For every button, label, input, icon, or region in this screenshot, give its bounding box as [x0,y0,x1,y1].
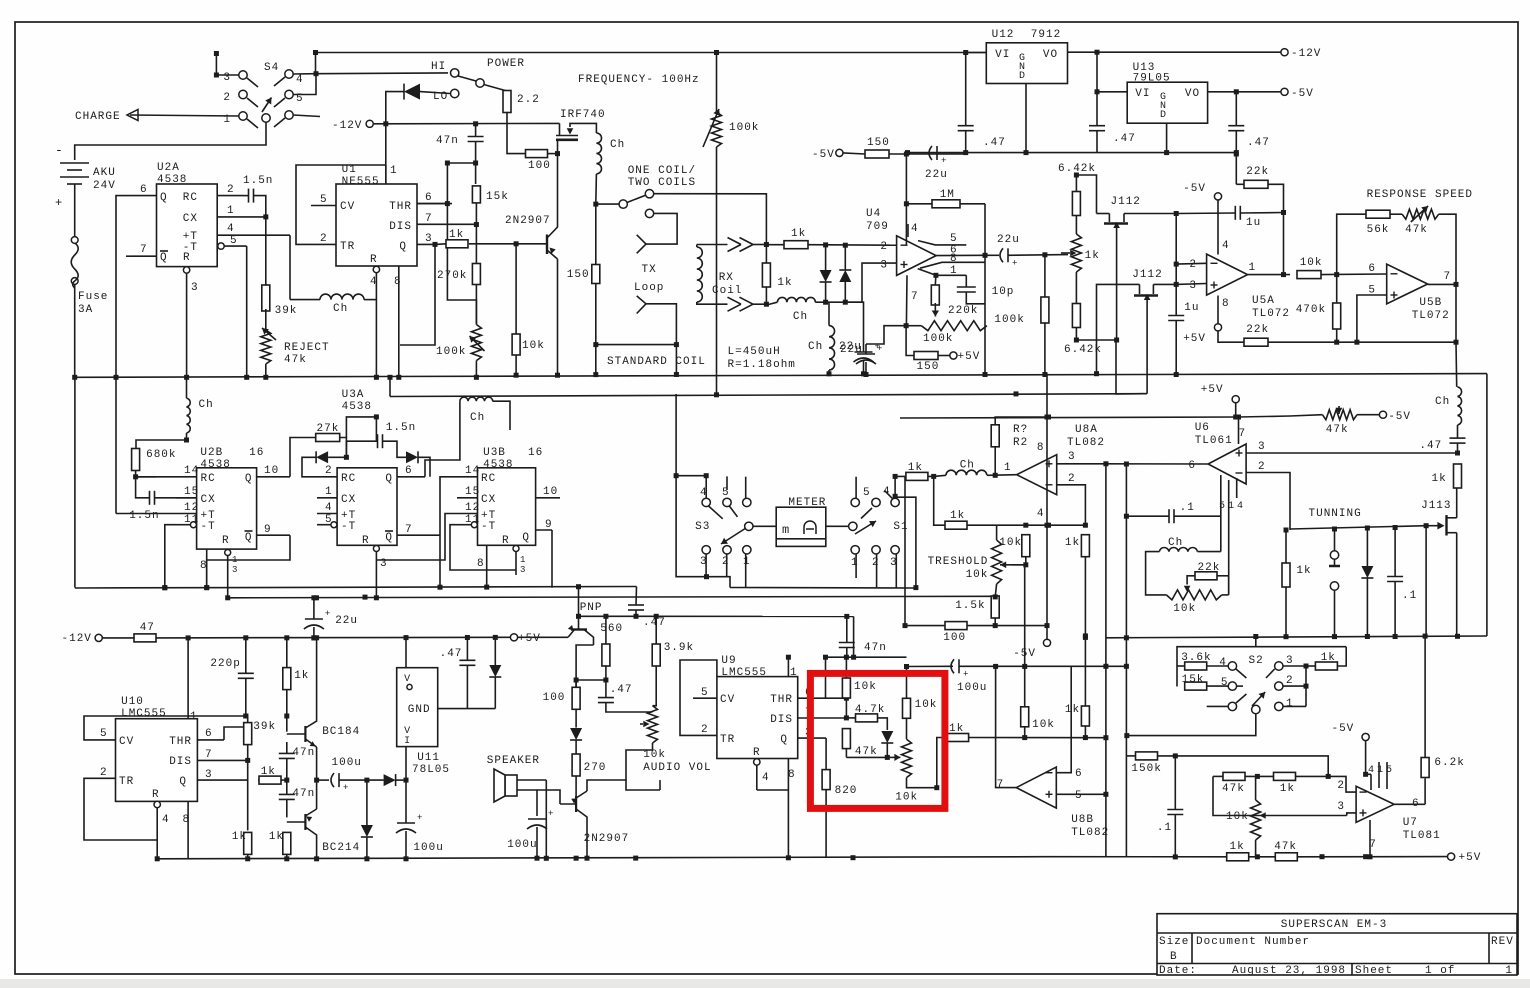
resistor 10k (u5) [1297,271,1321,279]
svg-text:5: 5 [1221,677,1229,689]
svg-text:4: 4 [1219,657,1227,669]
svg-text:3: 3 [232,565,237,575]
resistor 1k (mid right) [1282,563,1290,587]
pot TRESHOLD 10k [992,540,1002,584]
svg-text:6: 6 [1368,263,1376,275]
svg-text:PNP: PNP [580,602,603,614]
svg-text:5: 5 [100,728,108,740]
wire j112l bracket [1097,284,1140,373]
svg-text:CX: CX [183,213,198,225]
svg-text:7: 7 [1444,271,1452,283]
resistor 3.9k [652,644,660,666]
s2 rotor [1252,705,1260,713]
svg-text:5: 5 [863,487,871,499]
svg-text:1: 1 [227,205,235,217]
wire reject to bus [265,364,267,377]
svg-text:3: 3 [191,282,199,294]
svg-text:10p: 10p [992,286,1015,298]
svg-text:-5V: -5V [1291,88,1314,100]
wire u5a out [1248,274,1290,276]
svg-text:100u: 100u [332,757,362,769]
resistor 150 (tx loop) [592,265,600,284]
svg-text:1.5k: 1.5k [955,600,985,612]
wire bus 597 [228,596,996,598]
wire u2b q out [290,438,317,477]
capacitor 22u (mid) [305,618,323,620]
resistor 1k (right) [1454,464,1462,488]
svg-text:1k: 1k [294,670,309,682]
svg-text:5: 5 [325,514,333,526]
resistor 1k (u7 b) [1227,853,1249,861]
wire power to 2.2 [484,85,507,92]
resistor 6.42k (bot) [1072,304,1080,328]
svg-text:.47: .47 [983,137,1006,149]
resistor 3.6k (s2) [1185,662,1207,670]
resistor 10k (rb1) [842,678,850,698]
wire j112l source [1153,283,1176,285]
svg-text:3.6k: 3.6k [1181,652,1211,664]
svg-text:2.2: 2.2 [517,94,540,106]
svg-text:15k: 15k [1182,674,1205,686]
svg-text:4538: 4538 [157,174,187,186]
U10 pin stubs [92,739,116,741]
wire u11 bottom [405,747,407,781]
svg-text:CHARGE: CHARGE [75,111,121,123]
svg-text:-5V: -5V [812,149,835,161]
wire choke to switch [596,174,619,204]
capacitor 10p [957,286,976,288]
svg-text:m: m [782,523,789,537]
svg-text:S4: S4 [264,62,279,74]
wire s1 4 to 1k [893,494,898,499]
wire u8b pin6 [1056,666,1071,772]
svg-text:12: 12 [184,502,199,514]
svg-text:Ch: Ch [793,311,808,323]
resistor 1k (u7 a) [1274,772,1296,780]
svg-text:U3B: U3B [483,447,506,459]
svg-text:47n: 47n [292,788,315,800]
svg-text:1k: 1k [261,766,276,778]
svg-text:+: + [417,813,422,823]
svg-text:TR: TR [340,241,355,253]
svg-text:10k: 10k [915,699,938,711]
resistor 270k [472,264,480,285]
svg-text:CV: CV [340,201,355,213]
svg-text:D: D [1160,110,1166,121]
svg-text:Q: Q [179,776,187,788]
wire u8a top rail [900,417,1239,418]
svg-text:AUDIO VOL: AUDIO VOL [643,762,711,774]
wire u2b pins left [136,476,176,478]
resistor 1k (s1 out) [906,472,928,480]
resistor 6.42k (top) [1072,192,1080,216]
svg-text:150k: 150k [1131,763,1161,775]
meter mA [776,507,826,546]
svg-text:47k: 47k [855,746,878,758]
capacitor 1.5n (u2b) [149,491,151,505]
svg-text:3A: 3A [78,304,93,316]
wire u9 top rail 657 [853,616,855,657]
resistor 1k (u10 base r) [283,832,291,854]
svg-text:4538: 4538 [200,459,230,471]
svg-text:2: 2 [1286,675,1294,687]
wire j113 gate column [1425,526,1427,636]
wire u3b pin lines [440,477,457,588]
S3 rotor arrow [721,528,746,544]
wire fuse to bus [74,284,76,377]
inductor Ch (rx) [777,297,815,302]
svg-text:D: D [1019,71,1025,82]
wire j112u source [1124,213,1176,215]
svg-text:1k: 1k [1432,473,1447,485]
svg-text:Ch: Ch [610,139,625,151]
svg-text:Q: Q [522,532,530,544]
svg-text:TL061: TL061 [1195,435,1233,447]
wire pnp collector [576,645,593,687]
svg-text:100: 100 [528,160,551,172]
wire u7 out [1394,803,1425,805]
svg-text:10k: 10k [1300,257,1323,269]
resistor 1k (bc184 top) [283,668,291,690]
node +5V (bottom right) [1448,853,1455,860]
svg-text:1: 1 [743,556,751,568]
resistor 4.7k [856,714,878,722]
wire u13 out [1208,91,1281,93]
svg-text:FREQUENCY- 100Hz: FREQUENCY- 100Hz [578,74,700,86]
node -12V (right) [1281,49,1288,56]
wire Q down [400,244,435,345]
svg-text:RC: RC [183,192,198,204]
resistor 470k [1333,303,1341,329]
svg-text:6.2k: 6.2k [1434,757,1464,769]
svg-text:680k: 680k [146,449,176,461]
svg-text:CV: CV [119,736,134,748]
wire main bus right wrap [1486,374,1488,636]
svg-text:+5V: +5V [1183,333,1206,345]
capacitor .47 (audio top) [628,604,644,606]
svg-text:+: + [963,669,968,679]
U4 comp pin 1 [918,269,936,276]
U9 pin stubs [693,697,717,699]
svg-text:2: 2 [1068,473,1076,485]
svg-text:1: 1 [790,667,798,679]
svg-text:4: 4 [1222,240,1230,252]
svg-text:47n: 47n [292,747,315,759]
pot 47k (response) [1402,209,1439,219]
svg-text:3: 3 [880,260,888,272]
wire u6 inputs [1246,452,1457,454]
svg-text:.1: .1 [1402,590,1417,602]
svg-text:2: 2 [100,767,108,779]
resistor 22k (u6 fb) [1195,572,1217,580]
wire u9 pin1 top [787,657,789,676]
resistor 1.5k [991,596,999,618]
capacitor 47n (u9) [839,642,855,644]
wire top bus left [316,52,987,54]
svg-text:DIS: DIS [169,756,192,768]
svg-text:15: 15 [184,486,199,498]
capacitor .47 (audio a) [598,697,614,699]
resistor 6.2k [1421,758,1429,778]
svg-text:8: 8 [394,276,402,288]
svg-text:Ch: Ch [1435,396,1450,408]
svg-text:4: 4 [296,74,304,86]
svg-text:22k: 22k [1246,166,1269,178]
svg-text:1: 1 [190,711,198,723]
wire s1 bracket right [895,497,916,587]
svg-text:47k: 47k [1405,224,1428,236]
diode (tunning) [1361,566,1373,578]
svg-text:8: 8 [183,814,191,826]
wire j113 column [1116,340,1147,394]
svg-text:R: R [222,535,230,547]
resistor 100 [526,150,548,158]
resistor 270 [572,754,580,776]
capacitor .47 (u12) [958,125,974,127]
op-amp U7 TL081 [1356,786,1394,822]
svg-text:12: 12 [465,502,480,514]
resistor 100 (thresh) [945,622,967,630]
svg-text:U3A: U3A [342,389,365,401]
svg-text:BC214: BC214 [322,842,360,854]
resistor 15k (s2) [1185,682,1207,690]
IC U9 LMC555 [717,677,798,759]
svg-text:VI: VI [995,49,1010,61]
wire u3a top [346,417,376,441]
svg-text:15: 15 [465,486,480,498]
svg-text:4: 4 [911,223,919,235]
resistor 1k (U1 out) [446,240,468,248]
wire 100 to mosfet [548,153,558,155]
svg-text:47k: 47k [1222,783,1245,795]
svg-text:Ch: Ch [1168,537,1183,549]
svg-text:16: 16 [528,447,543,459]
svg-text:R: R [183,252,191,264]
svg-text:100u: 100u [507,839,537,851]
wire meter left [753,525,776,527]
svg-text:47k: 47k [1274,841,1297,853]
resistor 15k [472,186,480,203]
svg-text:.47: .47 [1113,133,1136,145]
wire second bus mid [390,394,1147,397]
svg-text:47n: 47n [864,642,887,654]
svg-text:SUPERSCAN EM-3: SUPERSCAN EM-3 [1281,919,1387,931]
wire u7 +in [1347,813,1356,816]
IC U13 79L05 [1127,82,1207,123]
svg-text:6: 6 [425,192,433,204]
node +5V (u5a) [1214,324,1221,331]
wire -12V [374,122,560,124]
resistor 1k (u10 base l) [244,832,252,854]
node -5V (u7) [1362,733,1369,740]
svg-text:10k: 10k [854,681,877,693]
svg-text:POWER: POWER [487,58,525,70]
svg-text:8: 8 [1037,442,1045,454]
resistor 47 [134,634,156,642]
capacitor 1u (u5a gnd) [1168,315,1184,317]
svg-text:TX: TX [642,264,657,276]
capacitor .47 (u11) [459,659,475,661]
wire u9 cv [680,660,717,735]
pot 10k (rb) [902,739,912,777]
inductor Ch (u3b) [460,397,493,401]
wire j113 down [1456,533,1458,636]
svg-text:22u: 22u [335,615,358,627]
svg-text:6: 6 [1075,768,1083,780]
svg-text:270: 270 [584,762,607,774]
svg-text:THR: THR [389,201,412,213]
svg-text:TL072: TL072 [1252,308,1290,320]
resistor 47k (u7 a) [1223,772,1245,780]
svg-text:78L05: 78L05 [412,764,450,776]
svg-text:4: 4 [1237,501,1243,512]
svg-text:August 23, 1998: August 23, 1998 [1232,965,1346,977]
wire u7 fb [1213,776,1347,815]
svg-text:1k: 1k [950,510,965,522]
svg-text:4: 4 [162,814,170,826]
svg-text:150: 150 [867,137,890,149]
resistor 1k (rb out) [947,734,969,742]
svg-text:LMC555: LMC555 [121,708,167,720]
wire meter right [826,525,849,527]
svg-text:6: 6 [140,184,148,196]
svg-text:+5V: +5V [958,351,981,363]
svg-text:3: 3 [1258,441,1266,453]
capacitor .1 (tunning) [1387,576,1403,578]
svg-text:U5A: U5A [1252,295,1275,307]
svg-text:.1: .1 [1157,822,1172,834]
svg-text:10k: 10k [1032,719,1055,731]
svg-text:METER: METER [788,497,826,509]
svg-text:RX: RX [719,272,734,284]
wire 2n2907 emitter down [557,259,559,375]
svg-text:Q: Q [385,532,393,544]
wire S4 pin4 [294,73,317,75]
inductor Ch (tx choke) [596,133,601,174]
inductor Ch (NE555) [320,294,364,300]
pot 10k (u6 fb) [1166,590,1221,600]
svg-text:R2: R2 [1013,437,1028,449]
svg-text:Q: Q [780,734,788,746]
wire u6 +in right [1455,451,1460,456]
resistor 820 [822,770,830,790]
wire amp emitter right [587,780,660,791]
wire pnp base drop [578,587,580,630]
pot REJECT 47k [265,309,267,330]
svg-text:BC184: BC184 [322,726,360,738]
wire s3 top feed [716,374,718,395]
svg-text:5: 5 [1075,790,1083,802]
wire U1 pin1 top [385,165,387,184]
svg-text:THR: THR [770,694,793,706]
svg-text:100k: 100k [994,314,1024,326]
wire tunning rail [1290,526,1426,529]
pot 10k AUDIO VOL [648,706,658,743]
svg-text:709: 709 [866,221,889,233]
u7 pins 415 [1366,741,1371,775]
svg-text:7: 7 [1239,428,1247,440]
svg-text:Coil: Coil [712,285,742,297]
svg-text:R=1.18ohm: R=1.18ohm [728,359,796,371]
svg-text:270k: 270k [437,270,467,282]
TX loop bracket [595,204,597,265]
svg-text:1: 1 [325,486,333,498]
capacitor .47 (right) [1450,437,1466,439]
svg-text:R: R [502,535,510,547]
svg-text:47: 47 [140,622,155,634]
wire rb mid [846,756,887,758]
wire U2A pin7 left [126,255,131,257]
wire u2b q9 [207,535,290,587]
wire diode left to -12V net [386,92,404,124]
svg-text:S2: S2 [1249,655,1264,667]
svg-text:TRESHOLD: TRESHOLD [928,556,989,568]
diode u3a left [316,451,328,463]
svg-text:4: 4 [762,772,770,784]
svg-text:-: - [55,143,64,158]
svg-text:SPEAKER: SPEAKER [487,755,540,767]
wire u5b +in [1357,295,1387,342]
svg-text:5: 5 [1219,501,1225,512]
svg-text:5: 5 [701,687,709,699]
wire u8a out [1083,523,1088,528]
svg-text:+5V: +5V [1459,852,1482,864]
svg-text:7: 7 [405,524,413,536]
svg-text:Ch: Ch [199,399,214,411]
pot 47k (-5v) [1322,410,1357,420]
resistor 220k [931,285,939,305]
svg-text:8: 8 [477,558,485,570]
svg-text:2: 2 [1337,780,1345,792]
svg-text:Q: Q [399,241,407,253]
U4 output 6 [936,254,985,256]
node -5V (right) [1281,88,1288,95]
svg-text:79L05: 79L05 [1133,73,1171,85]
svg-text:TR: TR [119,776,134,788]
svg-text:B: B [1170,951,1178,963]
svg-text:2N2907: 2N2907 [584,833,630,845]
svg-text:Ch: Ch [470,412,485,424]
inductor Ch (vert) [829,326,835,370]
svg-text:9: 9 [545,519,553,531]
svg-text:150: 150 [567,269,590,281]
node -5V (u5a) [1214,193,1221,200]
svg-text:-T: -T [481,521,496,533]
svg-text:J113: J113 [1421,500,1451,512]
diode (u11) [489,665,501,677]
wire u11 gnd right [438,708,496,710]
resistor 47k (u7 b) [1275,853,1297,861]
svg-text:56k: 56k [1367,224,1390,236]
svg-text:100k: 100k [436,346,466,358]
svg-text:R: R [753,747,761,759]
svg-text:2: 2 [701,724,709,736]
svg-text:100u: 100u [957,682,987,694]
svg-text:R: R [370,254,378,266]
U4 comp pin 5 [918,241,966,245]
svg-text:+: + [877,344,882,354]
svg-text:RC: RC [341,473,356,485]
capacitor 47n (bc pair a) [279,752,295,754]
svg-text:10k: 10k [966,569,989,581]
svg-text:.47: .47 [440,648,463,660]
wire u6 out [1106,463,1208,465]
resistor 680k [132,449,140,471]
svg-text:.47: .47 [1419,440,1442,452]
svg-text:VI: VI [1135,88,1150,100]
resistor 150 (u4 in) [865,150,889,158]
svg-text:Q: Q [385,473,393,485]
